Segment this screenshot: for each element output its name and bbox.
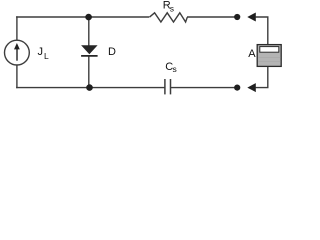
wire: diode branch upper (node to anode) — [88, 17, 90, 45]
wire: top-right from probe arrow to meter (with corner) — [256, 17, 268, 45]
wire: bottom rail from left corner to diode node — [16, 87, 89, 89]
probe arrow: top (points left into node) — [247, 13, 256, 22]
current source JL — [5, 40, 30, 65]
wire: capacitor right plate to bottom-right node — [171, 87, 238, 89]
label JL — [38, 46, 50, 61]
node: bottom-right junction — [234, 85, 240, 91]
resistor Rs — [149, 13, 187, 22]
wire: left vertical from top rail to current source — [16, 16, 18, 40]
wire: diode branch lower (cathode to bottom rail) — [88, 56, 90, 88]
svg-text:s: s — [173, 64, 177, 74]
wire: bottom rail from diode node to capacitor left plate — [90, 87, 165, 89]
diode D — [81, 45, 98, 56]
svg-text:D: D — [108, 46, 116, 58]
svg-text:s: s — [170, 4, 174, 14]
label Rs — [163, 0, 174, 14]
svg-text:L: L — [44, 51, 49, 61]
wire: bottom-right from meter to probe arrow (with corner) — [256, 66, 268, 87]
wire: resistor right lead to top-right node — [187, 16, 237, 18]
label Cs — [165, 61, 176, 74]
svg-text:A: A — [248, 48, 256, 60]
wire: top rail from left corner to diode node — [16, 16, 89, 18]
ammeter A (meter box) — [257, 45, 281, 67]
node: bottom diode junction — [86, 84, 93, 91]
svg-text:J: J — [38, 46, 44, 58]
wire: top rail from diode node to resistor left lead — [89, 16, 149, 18]
node: top diode junction — [85, 14, 92, 21]
wire: left vertical from current source to bottom rail — [16, 65, 18, 88]
node: top-right junction — [234, 14, 240, 20]
probe arrow: bottom (points left into node) — [247, 83, 256, 92]
capacitor Cs — [165, 79, 171, 94]
